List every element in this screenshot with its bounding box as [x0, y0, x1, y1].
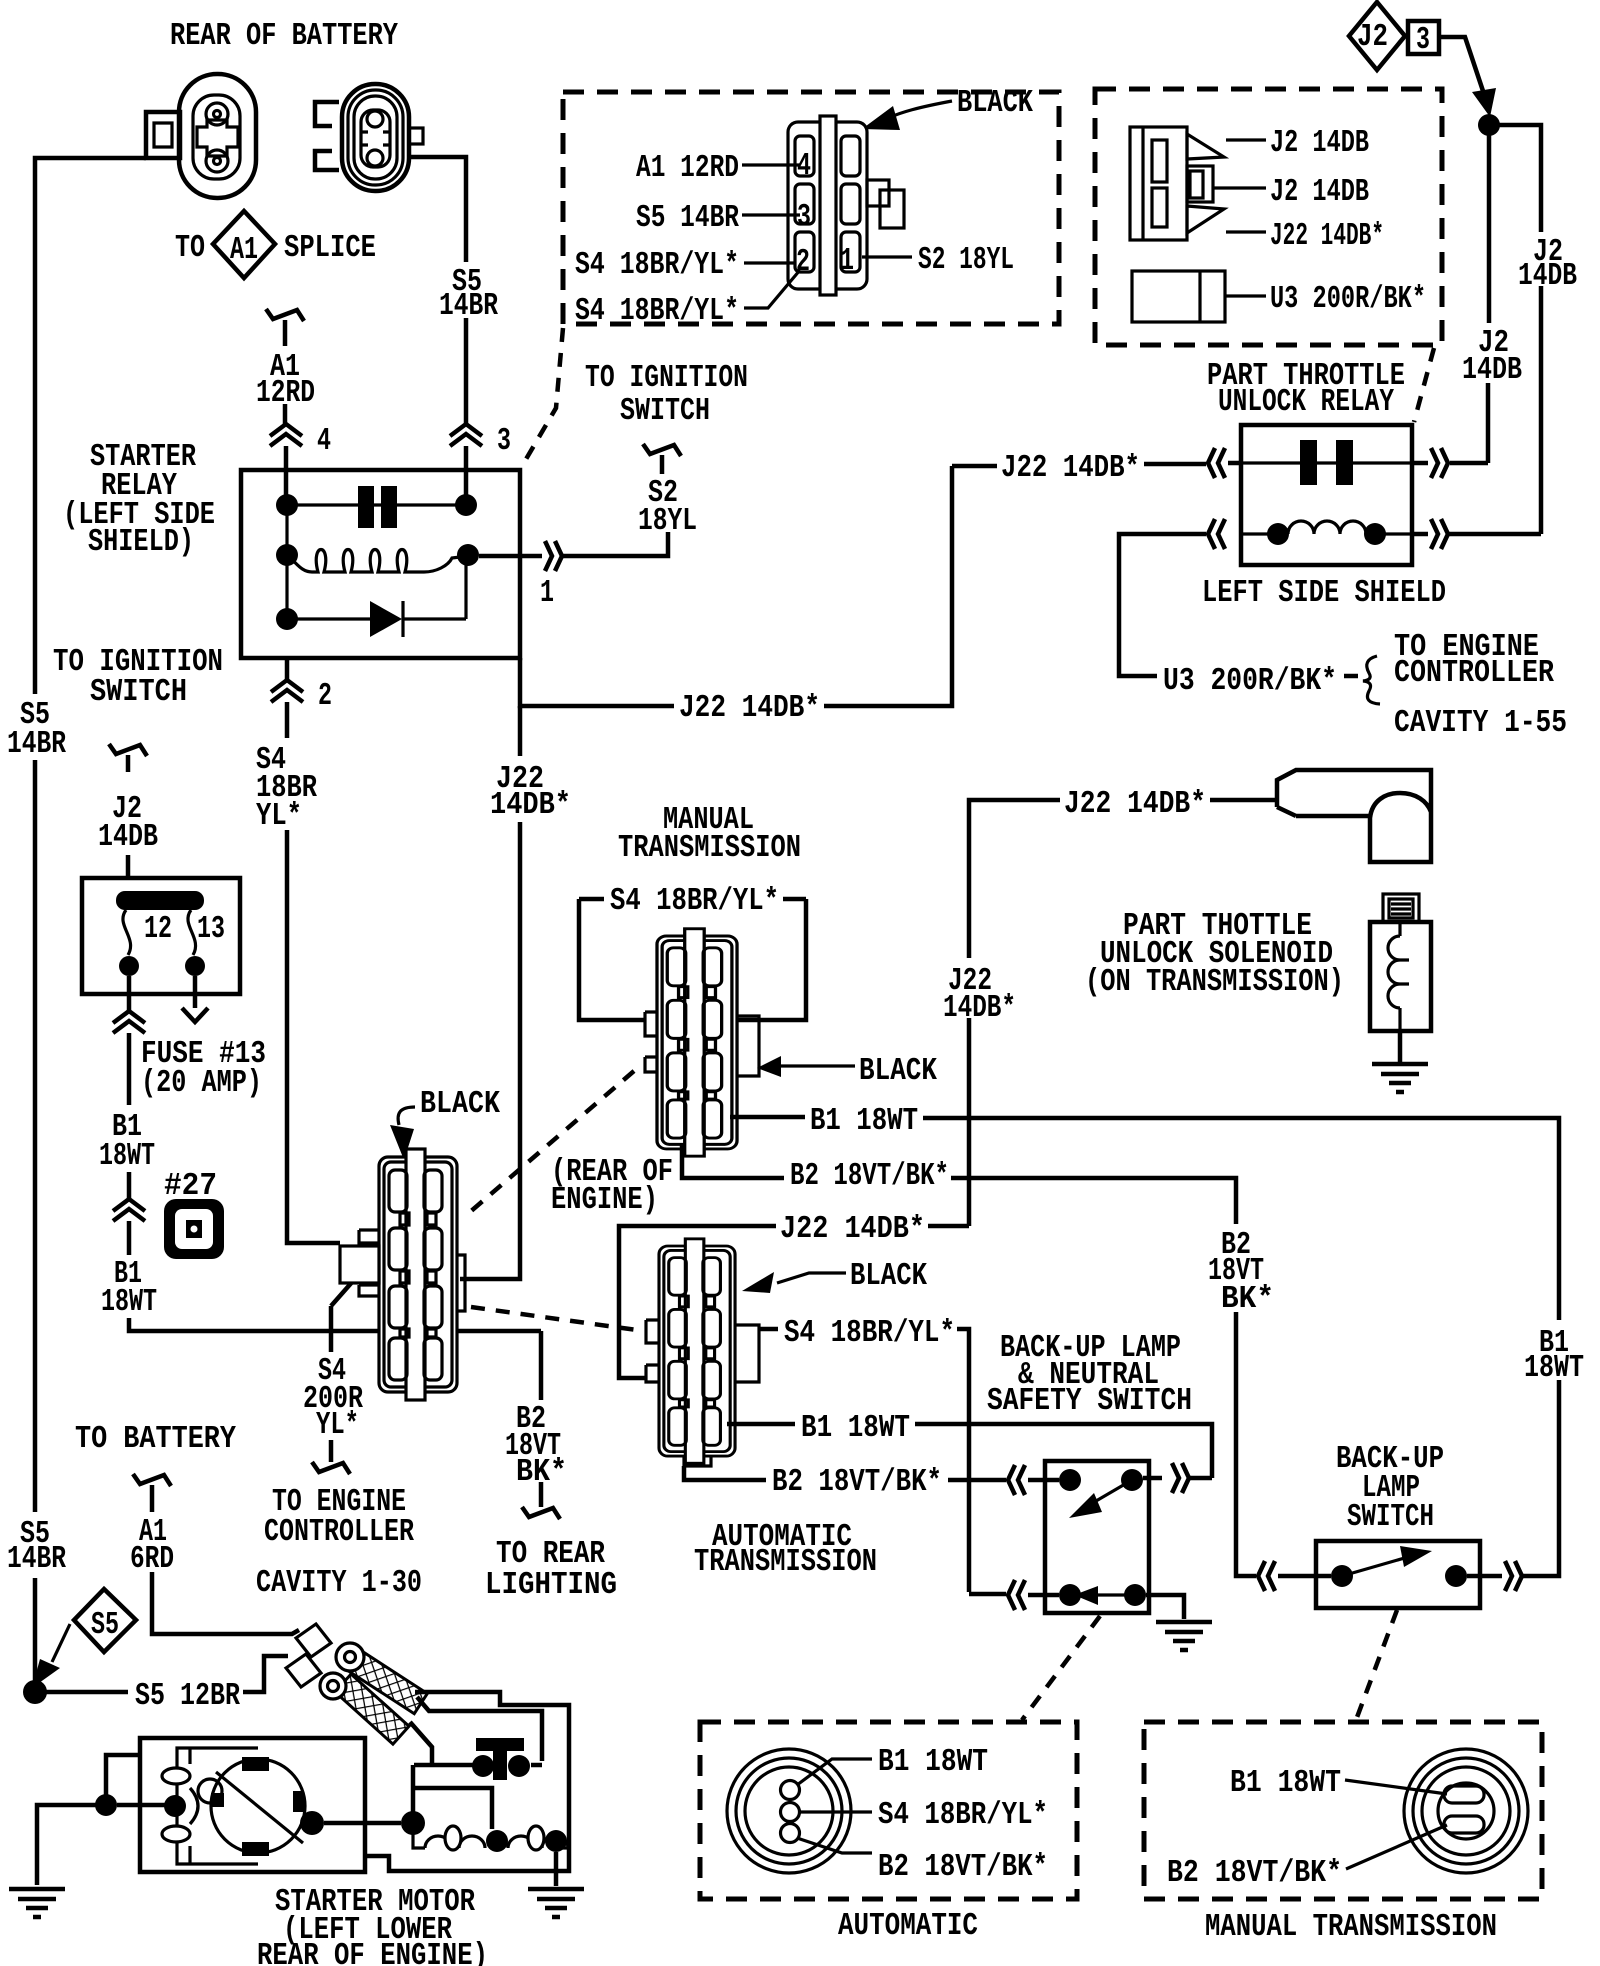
- svg-text:S4 18BR/YL*: S4 18BR/YL*: [575, 248, 739, 283]
- braided strap 2: [335, 1674, 409, 1744]
- svg-text:14BR: 14BR: [439, 289, 498, 324]
- switch S1 contacts bottom: [1059, 1584, 1081, 1606]
- wire coil to ground: [554, 1852, 559, 1886]
- wire relay contact right through chevron: [1412, 461, 1428, 466]
- svg-text:B1 18WT: B1 18WT: [801, 1411, 910, 1446]
- svg-text:S5 14BR: S5 14BR: [636, 201, 739, 236]
- dashed leader from box to relay: [1414, 348, 1434, 422]
- svg-text:B2 18VT/BK*: B2 18VT/BK*: [878, 1850, 1048, 1885]
- connector icon relay socket lower: [1132, 271, 1225, 322]
- svg-text:J2 14DB: J2 14DB: [1270, 175, 1369, 210]
- solenoid contact T: [476, 1738, 524, 1751]
- svg-text:SHIELD): SHIELD): [88, 525, 194, 560]
- svg-text:18WT: 18WT: [99, 1139, 155, 1174]
- svg-text:REAR OF BATTERY: REAR OF BATTERY: [170, 19, 398, 54]
- switch S1 back-up lamp & neutral safety switch box: [1045, 1461, 1149, 1613]
- svg-text:S4 18BR/YL*: S4 18BR/YL*: [878, 1798, 1048, 1833]
- svg-text:S4 18BR/YL*: S4 18BR/YL*: [610, 884, 779, 919]
- wire back-up lamp switch right: [1467, 1574, 1502, 1579]
- relay K1 starter relay box: [241, 470, 520, 658]
- svg-text:U3 200R/BK*: U3 200R/BK*: [1270, 282, 1426, 317]
- svg-text:TRANSMISSION: TRANSMISSION: [618, 831, 801, 866]
- wire branch to coil mid: [413, 1788, 492, 1829]
- fuse element 13: [188, 910, 196, 955]
- relay contact row: [287, 503, 466, 506]
- svg-text:BK*: BK*: [1221, 1282, 1274, 1317]
- connector break pin 3: [450, 424, 482, 446]
- fuse bus bar: [116, 891, 204, 910]
- wire B2 18VT/BK* row to safety switch: [684, 1466, 1059, 1480]
- svg-text:2: 2: [318, 679, 332, 714]
- svg-text:BLACK: BLACK: [420, 1087, 500, 1122]
- label J2 14DB pin lead 2: [1213, 186, 1266, 189]
- label J2 14DB pin lead 1: [1226, 138, 1266, 141]
- wire to ground from switch: [1146, 1595, 1184, 1619]
- wire A1 inner run to solenoid contact: [417, 1697, 542, 1765]
- connector face automatic: [727, 1749, 851, 1873]
- connector icon relay socket: [1130, 127, 1224, 240]
- connector face manual: [1404, 1749, 1528, 1873]
- wire S4 18BR/YL* row: [759, 1329, 1059, 1595]
- wire B2 18VT/BK* to rear lighting: [539, 1331, 544, 1507]
- svg-text:J2 14DB: J2 14DB: [1270, 126, 1369, 161]
- wire motor case ground: [37, 1755, 140, 1885]
- svg-text:CONTROLLER: CONTROLLER: [264, 1515, 414, 1550]
- wire B1 18WT row to safety switch: [727, 1424, 1212, 1478]
- svg-text:U3 200R/BK*: U3 200R/BK*: [1163, 664, 1337, 699]
- svg-text:S5 12BR: S5 12BR: [135, 1679, 240, 1714]
- dashed leader starter connector to rear of engine: [470, 1071, 634, 1212]
- svg-text:TRANSMISSION: TRANSMISSION: [694, 1545, 877, 1580]
- label U3 200R/BK* pin lead: [1225, 294, 1266, 297]
- wire junction down to relay contact: [1450, 125, 1489, 463]
- svg-text:J22 14DB*: J22 14DB*: [679, 691, 820, 726]
- svg-text:BLACK: BLACK: [850, 1259, 927, 1294]
- wire fuse 13 leg to battery arrow: [193, 976, 198, 1008]
- fuse element 12: [123, 910, 131, 955]
- node S5 splice diamond: [74, 1589, 136, 1652]
- junction dot motor case: [95, 1794, 117, 1816]
- wire S5 14BR from battery terminal 1 to left bus: [35, 158, 146, 1684]
- svg-text:A1: A1: [230, 233, 258, 268]
- svg-text:3: 3: [1416, 23, 1430, 58]
- battery terminal connector 2: [315, 84, 423, 191]
- connector C102 automatic transmission (BLACK): [646, 1239, 759, 1466]
- dashed box ignition switch connector: [563, 92, 1059, 324]
- junction dot J2 14DB: [1478, 114, 1500, 136]
- lead B1 18WT: [1345, 1780, 1447, 1794]
- svg-text:TO BATTERY: TO BATTERY: [75, 1422, 236, 1457]
- wire J22 14DB* into relay contact: [952, 463, 1241, 466]
- svg-text:CONTROLLER: CONTROLLER: [1394, 656, 1554, 691]
- switch S1 contacts top: [1059, 1469, 1081, 1491]
- svg-text:1: 1: [540, 576, 554, 611]
- wire J22 14DB* to automatic connector: [619, 1226, 969, 1378]
- ring terminal 2: [286, 1654, 321, 1687]
- connector C1 ignition switch connector: [788, 116, 904, 295]
- svg-text:LEFT SIDE SHIELD: LEFT SIDE SHIELD: [1202, 576, 1446, 611]
- svg-text:S4 18BR/YL*: S4 18BR/YL*: [784, 1316, 955, 1351]
- svg-text:14BR: 14BR: [7, 1542, 66, 1577]
- svg-text:B1 18WT: B1 18WT: [1230, 1766, 1341, 1801]
- node 3 box: [1408, 21, 1439, 54]
- svg-text:S4 18BR/YL*: S4 18BR/YL*: [575, 294, 739, 329]
- svg-text:BLACK: BLACK: [957, 86, 1033, 121]
- svg-text:18WT: 18WT: [1524, 1351, 1584, 1386]
- battery terminal connector 1: [146, 74, 256, 198]
- svg-text:SWITCH: SWITCH: [620, 394, 710, 429]
- relay diode row: [287, 555, 466, 619]
- relay coil row: [287, 550, 468, 573]
- dashed leader from box to relay: [522, 328, 563, 466]
- svg-text:14DB*: 14DB*: [490, 788, 571, 823]
- svg-text:ENGINE): ENGINE): [551, 1183, 658, 1218]
- svg-text:MANUAL TRANSMISSION: MANUAL TRANSMISSION: [1205, 1910, 1497, 1945]
- wire coil left to V3 200R/BK*: [1119, 534, 1358, 676]
- wire A1 6RD stub: [133, 1474, 171, 1486]
- svg-text:6RD: 6RD: [130, 1542, 174, 1577]
- svg-text:J22 14DB*: J22 14DB*: [780, 1212, 925, 1247]
- svg-text:14BR: 14BR: [7, 727, 66, 762]
- lead B2 18VT/BK*: [1346, 1825, 1447, 1869]
- wire relay pin 2 S4 18BR/YL* down to starter connector: [287, 658, 340, 1243]
- svg-text:A1 12RD: A1 12RD: [636, 151, 739, 186]
- svg-text:CAVITY 1-55: CAVITY 1-55: [1394, 706, 1567, 741]
- wire B1 18WT long run: [730, 1117, 1559, 1576]
- dashed box automatic: [700, 1722, 1077, 1899]
- frame S4 18BR/YL* label above connector: [579, 899, 806, 1020]
- wire junction to J2 14DB right branch: [1448, 125, 1541, 534]
- dashed leader switch to automatic circle: [1022, 1616, 1100, 1720]
- wire battery cable outer run: [365, 1692, 569, 1871]
- connector break pin 4: [270, 424, 302, 446]
- wire B1 18WT from fuse down: [129, 976, 541, 1331]
- wire J22 14DB* to solenoid boot: [969, 800, 1277, 1226]
- svg-text:18WT: 18WT: [101, 1285, 157, 1320]
- wire coil right through chevron to J2 14DB: [1412, 532, 1428, 537]
- svg-text:B2 18VT/BK*: B2 18VT/BK*: [772, 1465, 942, 1500]
- wire S2 18YL stub to ignition switch: [643, 444, 681, 456]
- armature circle: [211, 1759, 305, 1853]
- svg-text:SPLICE: SPLICE: [284, 231, 376, 266]
- lead B2 18VT/BK*: [797, 1838, 872, 1853]
- svg-text:(20 AMP): (20 AMP): [141, 1066, 262, 1101]
- svg-text:18YL: 18YL: [638, 504, 697, 539]
- wire A1 12RD stub from ignition switch: [266, 309, 304, 321]
- wire J22 14DB* horizontal run: [520, 466, 952, 706]
- wire relay pin 1 to S2 18YL: [479, 532, 668, 556]
- svg-text:AUTOMATIC: AUTOMATIC: [838, 1909, 978, 1944]
- svg-text:SWITCH: SWITCH: [1347, 1500, 1434, 1535]
- dashed box manual: [1144, 1722, 1542, 1899]
- svg-text:BLACK: BLACK: [859, 1054, 937, 1089]
- svg-text:J22 14DB*: J22 14DB*: [1064, 787, 1206, 822]
- svg-text:B1 18WT: B1 18WT: [810, 1104, 918, 1139]
- svg-text:SAFETY SWITCH: SAFETY SWITCH: [987, 1384, 1192, 1419]
- svg-text:YL*: YL*: [256, 799, 302, 834]
- svg-text:1: 1: [840, 244, 854, 279]
- connector C100 starter motor connector (BLACK): [340, 1149, 465, 1400]
- wire armature to solenoid coil: [324, 1821, 401, 1826]
- wire battery cable to motor junction: [410, 1722, 473, 1812]
- svg-text:TO: TO: [175, 231, 205, 266]
- svg-text:(ON TRANSMISSION): (ON TRANSMISSION): [1085, 965, 1344, 1000]
- dashed leader starter connector to automatic connector: [471, 1307, 644, 1331]
- svg-text:12: 12: [144, 912, 172, 947]
- relay K2 coil row: [1241, 532, 1412, 535]
- svg-text:J22 14DB*: J22 14DB*: [1270, 219, 1384, 254]
- svg-text:SWITCH: SWITCH: [90, 675, 187, 710]
- wire B2 18VT/BK* from manual connector: [682, 1144, 1256, 1576]
- svg-text:S2 18YL: S2 18YL: [918, 243, 1014, 278]
- braided strap 1: [345, 1649, 427, 1714]
- wire from J2/3 to junction: [1439, 37, 1483, 91]
- svg-text:B2 18VT/BK*: B2 18VT/BK*: [1167, 1856, 1342, 1891]
- svg-text:J22 14DB*: J22 14DB*: [1001, 451, 1140, 486]
- connector C101 manual transmission (BLACK): [645, 929, 759, 1156]
- svg-text:LIGHTING: LIGHTING: [485, 1568, 617, 1603]
- svg-text:3: 3: [797, 200, 811, 235]
- svg-text:14DB: 14DB: [98, 820, 158, 855]
- svg-text:S5: S5: [91, 1608, 119, 1643]
- wire J22 14DB* vertical to starter connector: [460, 706, 520, 1279]
- motor M1 starter motor box: [140, 1738, 365, 1872]
- svg-text:3: 3: [497, 424, 511, 459]
- dashed box part throttle unlock relay connector: [1095, 89, 1442, 345]
- wire S5 14BR from battery terminal 2 down to relay pin 3: [409, 157, 466, 505]
- svg-text:CAVITY 1-30: CAVITY 1-30: [256, 1566, 422, 1601]
- dashed leader switch to manual circle: [1356, 1610, 1397, 1720]
- svg-text:TO REAR: TO REAR: [496, 1537, 605, 1572]
- wire into field bracket: [117, 1803, 165, 1808]
- wire S4 200R/YL* diagonal into connector: [331, 1247, 383, 1462]
- lead B1 18WT: [797, 1759, 872, 1785]
- svg-text:12RD: 12RD: [256, 376, 315, 411]
- field bracket with pole coils: [177, 1748, 258, 1864]
- label J22 14DB* pin lead 3: [1226, 230, 1266, 233]
- solenoid L1 coil: [1370, 894, 1431, 1062]
- brace to engine controller: [1363, 656, 1380, 704]
- relay K2 contact row: [1241, 461, 1412, 464]
- ground below solenoid: [1372, 1064, 1428, 1092]
- svg-text:TO IGNITION: TO IGNITION: [585, 361, 748, 396]
- fuse block box: [82, 878, 240, 994]
- svg-text:14DB: 14DB: [1462, 353, 1522, 388]
- node J2 splice diamond: [1349, 2, 1405, 70]
- svg-text:14DB: 14DB: [1518, 259, 1577, 294]
- junction dot S5: [23, 1680, 47, 1704]
- svg-text:B1 18WT: B1 18WT: [878, 1745, 988, 1780]
- svg-text:J2: J2: [1357, 20, 1388, 55]
- wire into back-up lamp switch left: [1278, 1574, 1331, 1579]
- svg-text:13: 13: [197, 912, 225, 947]
- boot connector part throttle unlock solenoid: [1277, 770, 1431, 862]
- lead S4 18BR/YL*: [800, 1810, 872, 1813]
- svg-text:14DB*: 14DB*: [943, 991, 1016, 1026]
- svg-text:BK*: BK*: [516, 1455, 567, 1490]
- switch S2 back-up lamp switch box: [1316, 1541, 1480, 1608]
- svg-text:2: 2: [796, 245, 810, 280]
- armature output dot: [300, 1811, 324, 1835]
- svg-text:UNLOCK RELAY: UNLOCK RELAY: [1218, 385, 1394, 420]
- wire J2 14DB stub into fuse block: [109, 744, 147, 756]
- arrow from S5 diamond to junction: [52, 1624, 70, 1662]
- svg-text:4: 4: [317, 424, 331, 459]
- relay K2 part throttle unlock relay box: [1241, 425, 1412, 565]
- svg-text:#27: #27: [164, 1169, 217, 1204]
- solenoid coil row: [413, 1823, 485, 1848]
- svg-text:B2 18VT/BK*: B2 18VT/BK*: [790, 1159, 949, 1194]
- wire S5 12BR: [46, 1656, 288, 1692]
- brushes: [242, 1757, 269, 1771]
- svg-text:YL*: YL*: [316, 1408, 359, 1443]
- svg-text:REAR OF ENGINE): REAR OF ENGINE): [257, 1939, 488, 1966]
- ring terminal 1: [296, 1624, 331, 1657]
